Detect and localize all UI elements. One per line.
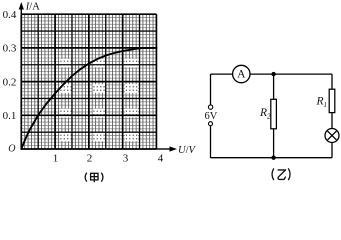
y axis I (19, 2, 24, 14)
svg-text:A: A (237, 69, 246, 81)
svg-text:0.2: 0.2 (3, 76, 17, 88)
caption (yi) parens (272, 168, 274, 180)
resistor R2 (271, 99, 277, 129)
svg-text:4: 4 (158, 153, 164, 165)
left wire lower (210, 126, 212, 158)
svg-text:2: 2 (87, 153, 93, 165)
lamp L (325, 129, 339, 143)
y tick labels (3, 9, 17, 122)
svg-text:0.4: 0.4 (3, 9, 17, 21)
right wire middle (331, 113, 333, 129)
left wire upper (210, 74, 212, 105)
node bottom (271, 156, 275, 160)
caption (jia) parens (85, 173, 87, 182)
terminal lower (209, 122, 213, 126)
caption jia glyph (91, 173, 98, 182)
svg-text:1: 1 (53, 153, 59, 165)
top wire (211, 73, 333, 75)
svg-text:I/A: I/A (25, 2, 40, 13)
node top (271, 72, 275, 76)
terminal upper (208, 105, 212, 109)
right wire lower (331, 143, 333, 158)
resistor R1 (329, 89, 335, 112)
svg-text:O: O (8, 143, 15, 154)
middle branch wire upper (273, 74, 275, 99)
right wire upper (331, 74, 333, 89)
lamp I-U curve (21, 48, 156, 149)
svg-text:3: 3 (123, 153, 129, 165)
bottom wire (211, 157, 333, 159)
ammeter A1 (233, 65, 250, 82)
svg-text:0.3: 0.3 (3, 43, 17, 55)
graph fine grid (21, 14, 156, 149)
svg-text:R1: R1 (316, 96, 328, 110)
middle branch wire lower (273, 129, 275, 158)
svg-text:0.1: 0.1 (3, 110, 17, 122)
graph major grid (21, 14, 156, 149)
svg-text:R2: R2 (259, 107, 271, 121)
x axis U (156, 146, 177, 151)
svg-text:U/V: U/V (178, 145, 197, 156)
graph medium grid (21, 14, 156, 149)
grid scan patches (60, 59, 139, 142)
svg-text:6V: 6V (204, 111, 217, 122)
x tick labels (53, 153, 164, 165)
caption yi glyph (278, 170, 286, 180)
